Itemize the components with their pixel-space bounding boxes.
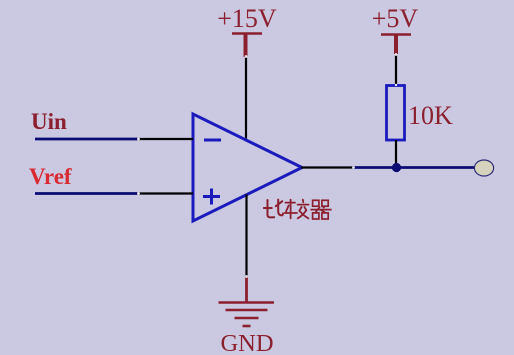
pin end dot (non-inverting input) [137,192,140,195]
pin resistor R1 top [395,54,397,86]
label 比较器 (comparator) : char 较 [285,200,309,219]
terminal pad (output) [474,160,493,176]
svg-text:+15V: +15V [217,4,277,33]
pin op-amp inverting input [136,138,193,140]
op-amp inverting input marker (-) [204,139,221,142]
power symbol +15V (bar) [232,32,262,35]
pin end dot (output) [352,166,355,169]
svg-text:GND: GND [220,330,273,355]
svg-text:Uin: Uin [31,109,67,134]
pin end dot (ground stem) [245,275,248,278]
pin end dot (resistor top) [395,84,397,86]
svg-text:10K: 10K [408,101,453,130]
power symbol +15V (stem) [244,34,248,58]
pin end dot (+5V stem) [395,53,398,56]
pin end dot (inverting input) [137,138,140,141]
op-amp non-inverting input marker (+) [203,189,220,205]
power symbol +5V (bar) [381,33,411,36]
op-amp U1 comparator body [193,114,302,221]
wire Vref [35,192,137,195]
pin end dot (+15V stem) [245,55,248,58]
ground symbol bars [219,303,275,327]
junction output node [392,163,401,172]
wire output node [353,166,475,169]
power symbol +5V (stem) [394,35,398,55]
wire +15V to op-amp V+ pin [245,57,247,142]
svg-text:+5V: +5V [372,4,419,33]
label 比较器 (comparator) : char 器 [310,200,331,219]
label 比较器 (comparator) : char 比 [264,200,283,218]
wire Uin [35,138,137,141]
resistor R1 body [387,86,405,141]
wire op-amp V- to ground [245,195,247,278]
pin resistor R1 bottom [395,140,397,167]
svg-text:Vref: Vref [29,164,72,189]
pin op-amp non-inverting input [136,192,193,194]
pin op-amp output [301,166,354,168]
ground symbol stem [245,276,248,302]
